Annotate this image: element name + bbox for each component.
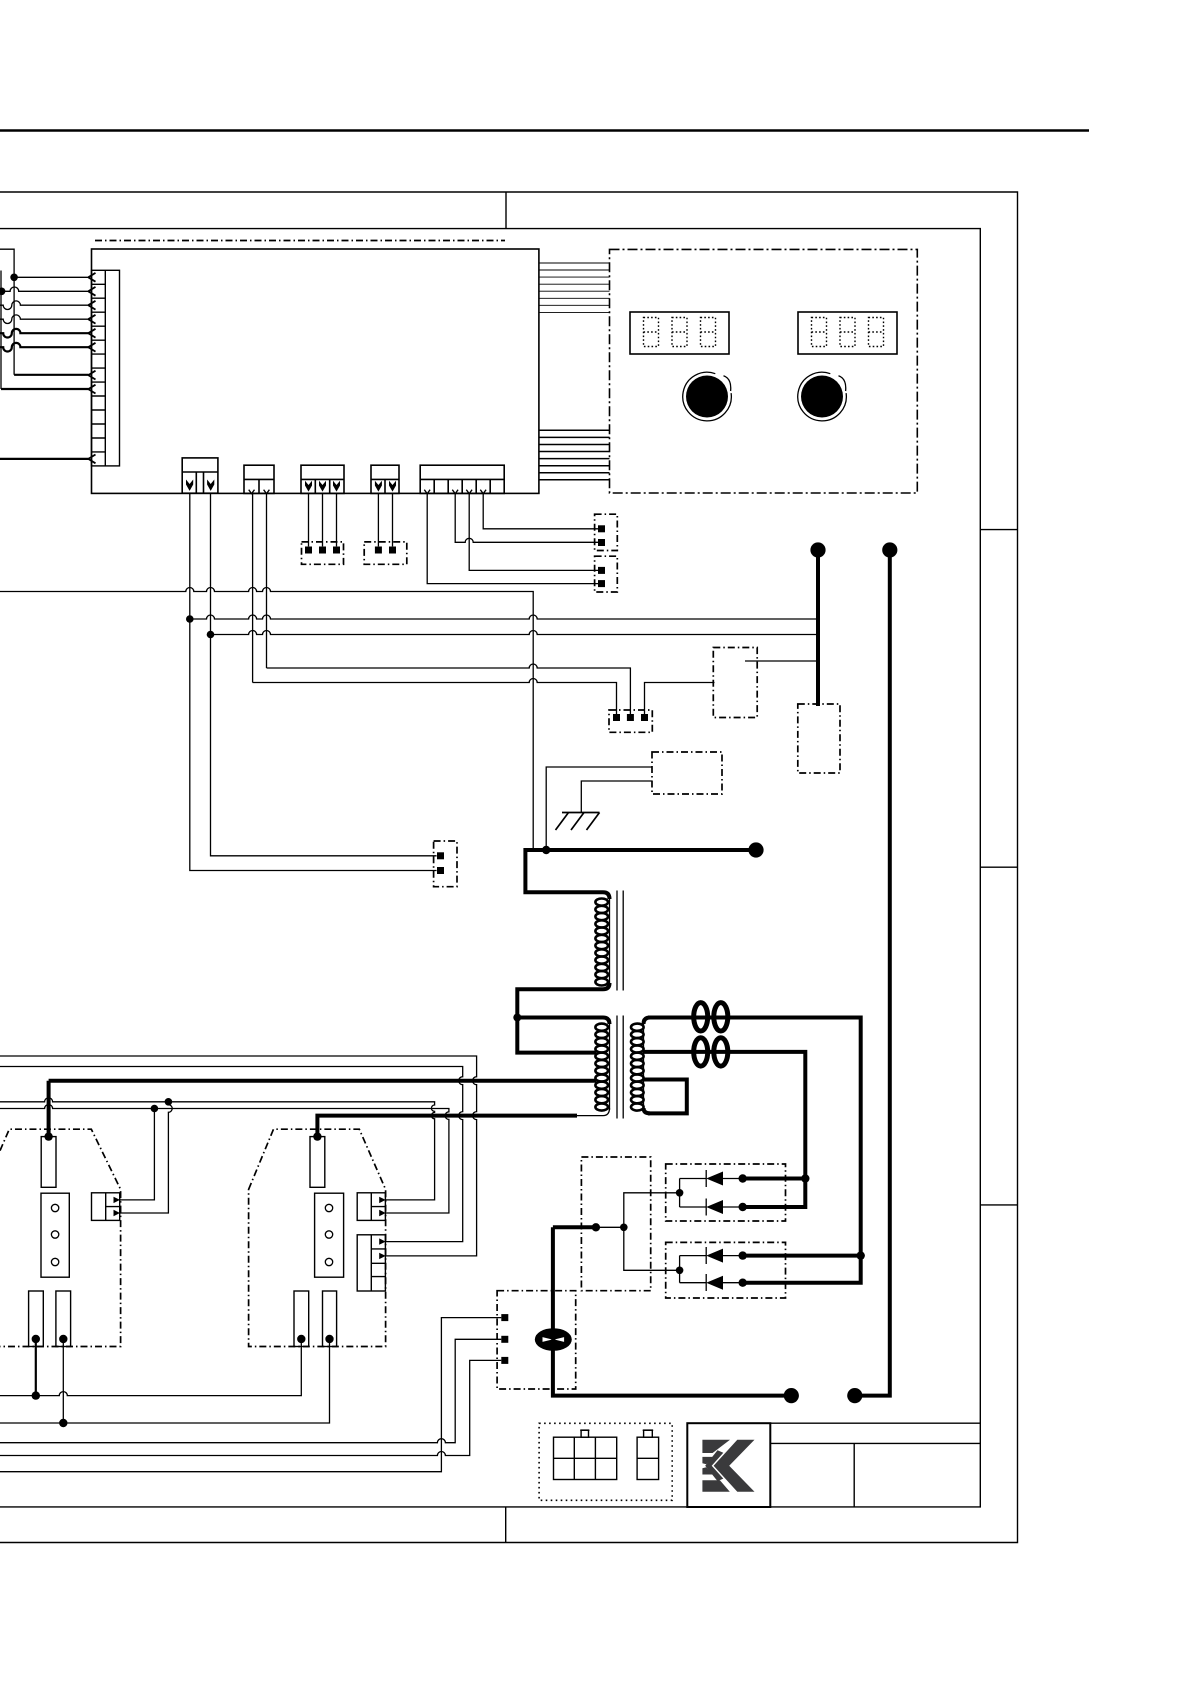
terminal block X14 [609,710,652,732]
node dot A-A1 [32,1391,40,1399]
node dot B-A2 [59,1419,67,1427]
shunt block K [497,1291,576,1389]
X6 arrow pins [424,490,486,494]
wire X6 pin2 with hop [455,493,598,542]
display P1 digits [644,318,716,347]
wire thin link [596,1226,624,1228]
node dot L7 tap [165,1098,173,1106]
wire X2 pin2 down [211,493,437,856]
cable terminal dot B2 [810,542,825,557]
wire G2 [581,781,652,813]
module B top pin [310,1137,325,1188]
module B bottom pin 1 [294,1291,309,1347]
X13 terminals [598,567,605,574]
gate line L7 [0,1098,435,1200]
IGBT module A outline [0,1129,121,1346]
control PCB A1 outline [92,249,539,493]
module B bottom pin 2 [323,1291,337,1347]
Kemppi logo middle bar lower [702,1467,713,1474]
transformer T1 core [617,891,623,991]
wire T2 top in [517,1016,596,1020]
diode V3 [739,1251,747,1259]
chassis ground [556,813,600,831]
X14 terminals [613,714,620,721]
wire E to bus [745,660,818,662]
Kemppi logo small chevron [705,1450,723,1481]
node dot bus mid [620,1224,628,1232]
wire module A pin2 down [62,1339,64,1423]
wire left edge vertical [0,271,2,390]
component block E [713,648,757,718]
wire T2 bottom out thin [577,1115,598,1117]
node dot line3 start [207,631,215,639]
X10 terminals [305,547,312,554]
wire V1V2 cathode join [679,1179,681,1208]
module A top pin [41,1137,56,1188]
wire X6 pin1 [427,493,598,583]
Kemppi logo bottom bar [702,1480,729,1492]
choke wire pin4 [0,315,89,324]
transformer T2 core [617,1016,623,1119]
cable terminal dot B4 [847,1388,862,1403]
dash-dot fold line above PCB [95,240,505,242]
Kemppi logo big chevron [714,1440,755,1492]
frame divider top [505,192,507,229]
component block F [798,704,840,773]
connector X4 (box3) [301,465,344,493]
logo box [687,1423,770,1507]
knob R2 [801,376,843,418]
wire V3 anode [743,1254,861,1258]
module A gate box [92,1193,120,1221]
wire module A pin1 down [35,1339,37,1396]
shunt line E [0,1318,501,1472]
ribbon cable top (8 wires) [539,263,610,312]
choke wire pin6 [0,343,89,352]
module B body holes [315,1193,344,1277]
bus line 5 right [645,683,715,715]
gate line L5 [0,1056,477,1256]
wire gate A2 with hop [120,1102,172,1213]
module A bottom pin 2 [56,1291,71,1347]
choke wire pin3 [0,301,89,310]
IGBT module B outline [249,1129,386,1346]
wire T2 bottom to module B [317,1116,577,1137]
diode V2 [739,1203,747,1211]
DC bus thick [525,850,756,892]
wire T2 secondary strap [644,1080,687,1114]
frame zone tick 3 [980,1204,1017,1206]
wire pin1 [14,276,88,278]
wire T2 sec top to rectifier [648,1018,861,1283]
node dot thick end [592,1223,600,1231]
node dot L8 tap [151,1105,159,1113]
transformer T1 primary [601,892,610,899]
cable terminal dot B1 [748,842,763,857]
choke wire pin5 [0,329,89,338]
legend connector 6-way [554,1437,617,1479]
Kemppi logo middle bar upper [702,1457,713,1464]
current transformer ring T4a [694,1038,708,1066]
ribbon cable bottom (8 wires) [539,430,610,480]
module A body holes [41,1193,69,1277]
connector X5 (box4) [371,465,399,493]
gate line L8 [0,1105,449,1214]
K terminals [501,1314,508,1321]
bus line 1 [0,588,533,851]
wire T2 sec tap to rectifier [644,1052,805,1207]
node dot bus-G [542,846,550,854]
transformer T2 left winding [597,1018,610,1025]
legend connector 2-way [637,1437,659,1479]
edge connector X1 divider [104,270,106,466]
wire X3 pin2 down [266,493,268,668]
legend dotted box [539,1423,672,1500]
connector X6 (box5) [420,465,504,493]
wire V3V4 cathode join [679,1256,681,1283]
cable terminal dot B5 [882,542,897,557]
frame zone tick 1 [980,529,1017,531]
X3 arrow pins [249,490,270,494]
module B gate box lower [357,1235,385,1291]
node dot V1 anode [801,1174,809,1182]
wire cathode bus [624,1193,680,1271]
cathode bus block I [581,1157,650,1291]
knob R1 [686,376,728,418]
X1 pin arrows [88,273,95,463]
wire B2 drop [816,550,820,706]
inner frame [0,229,980,1507]
collector line B [0,1339,330,1423]
wire X6 pin4 [483,493,598,528]
bus line 3 [211,631,817,635]
X4 arrow pins [305,481,312,492]
transformer T2 right winding [644,1018,651,1025]
frame zone tick 2 [980,866,1017,868]
terminal block X13 lower [595,556,618,592]
X12 terminals [598,525,605,532]
frame divider bottom [505,1507,507,1543]
current transformer ring T3b [714,1003,728,1031]
cable terminal dot B3 [784,1388,799,1403]
rectifier block V3V4 [666,1242,786,1298]
wire output plus [855,550,890,1396]
wire X3 pin1 down [252,493,254,682]
X5 arrow pins [375,481,382,492]
gate line L6 [0,1067,463,1242]
terminal block X10 [302,542,344,564]
wire output minus thick [553,1225,596,1229]
rectifier block V1V2 [666,1164,786,1221]
title block lines [770,1423,980,1507]
module A bottom pin 1 [29,1291,44,1347]
node dot line2 start [186,615,194,623]
X15 terminals [437,852,444,859]
wire CT drop [553,1227,791,1395]
display P2 digits [812,318,884,347]
wire X6 pin3 [469,493,598,570]
display P2 [798,312,897,354]
connector X2 (box1) [182,458,218,493]
current transformer ring T3a [694,1003,708,1031]
Kemppi logo top bar [702,1440,730,1453]
wire gate A1 [120,1109,154,1200]
node dot L1 [10,274,18,282]
wire pin2 with hop [2,287,89,291]
X2 arrow pins [186,480,193,491]
fan connector block X15 [434,841,457,887]
wire X5 pins down [378,493,392,546]
module B gate box upper [357,1193,385,1221]
current transformer ring T4b [714,1038,728,1066]
shunt line D [0,1360,501,1455]
diode V1 [739,1174,747,1182]
diode V4 [739,1279,747,1287]
component block G [652,752,722,794]
current sensor toroid [535,1328,572,1351]
X11 terminals [375,547,382,554]
wire pin9 [1,388,89,390]
connector X3 (box2) [244,465,274,493]
wire pin14 [0,458,89,460]
wire V1 anode [743,1177,806,1181]
bus line 4 [267,664,631,714]
wire X4 pins down [309,493,337,546]
node dot L2 [0,288,5,296]
wire pin8 [14,374,88,376]
bus line 2 [190,615,816,619]
shunt line C [0,1339,501,1442]
terminal block X11 [364,542,407,564]
wire T2 tap to module A [49,1081,597,1137]
node dot V3 anode [857,1251,865,1259]
front panel enclosure [610,249,918,493]
edge connector X1 rungs [92,284,106,452]
bus line 5 left [253,679,617,715]
wire X2 pin1 down [190,493,437,870]
top rule [0,129,1089,132]
outer frame [0,192,1018,1543]
node dot T1-T2 [513,1014,521,1022]
display P1 [630,312,729,354]
terminal block X12 upper [595,514,618,550]
collector line A [0,1339,301,1396]
edge connector X1 body [92,270,120,466]
wire G1 [546,767,652,850]
wire mains vertical [0,249,14,375]
